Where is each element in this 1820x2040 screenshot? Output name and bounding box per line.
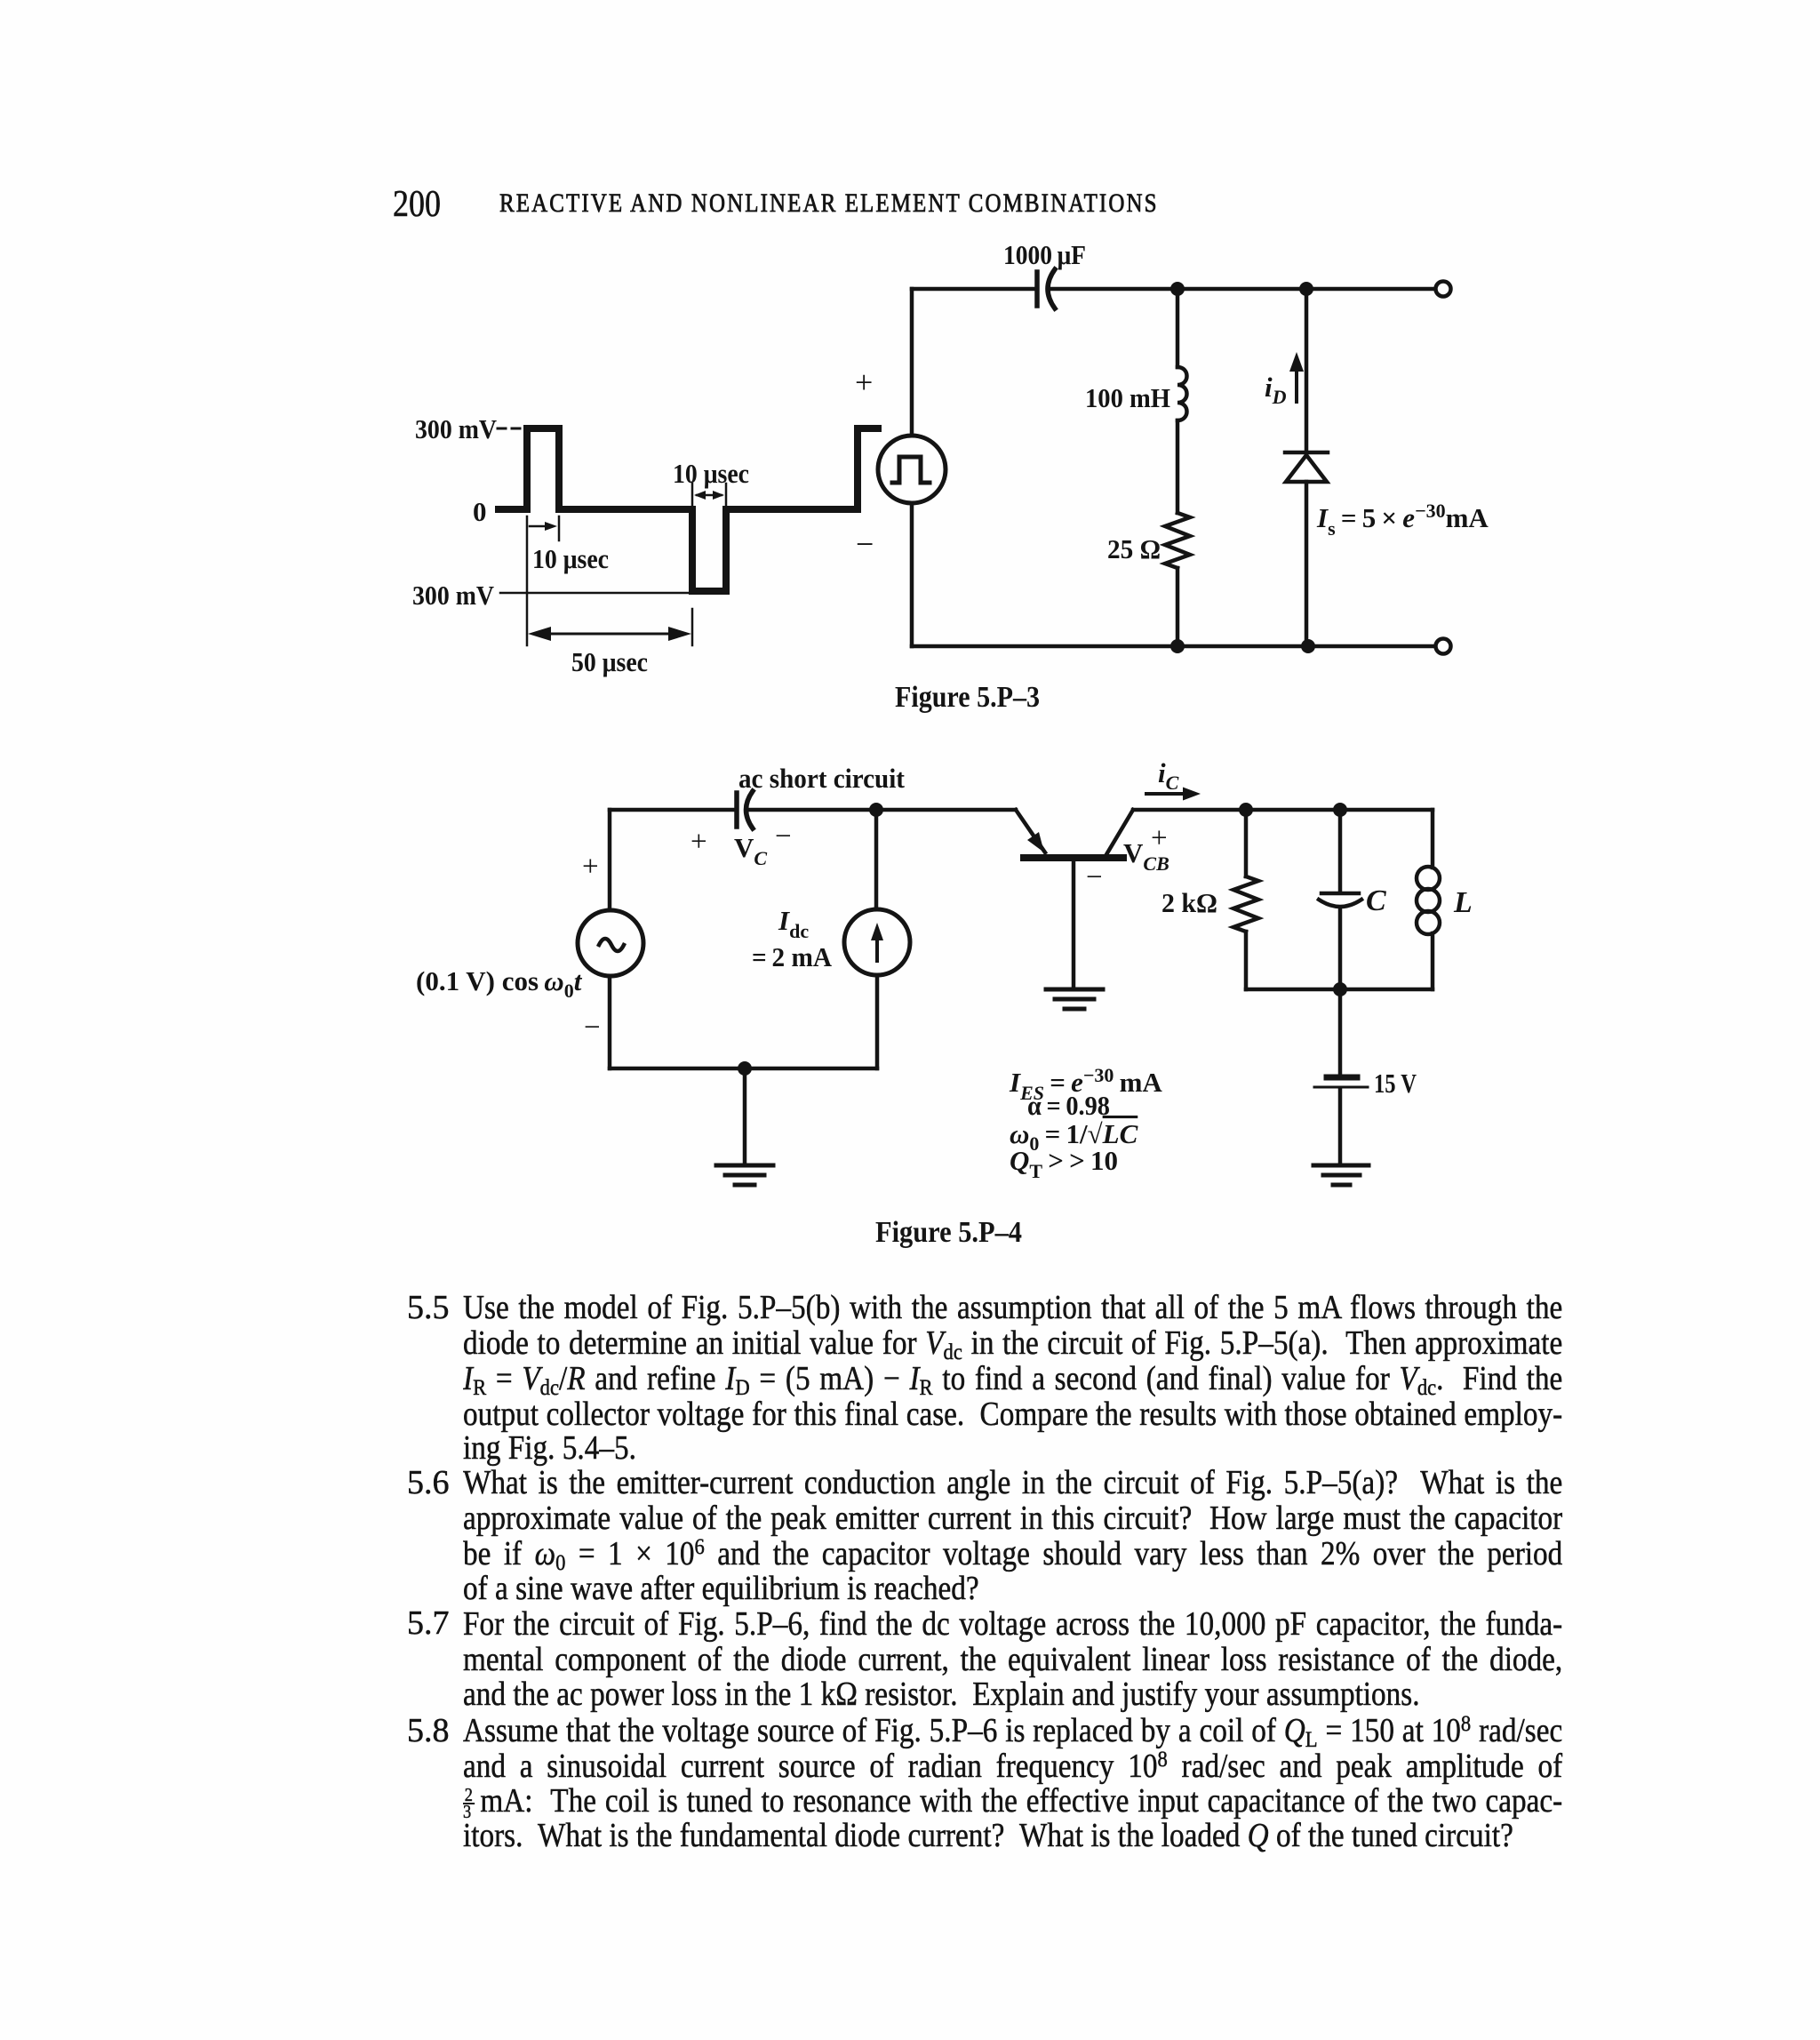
wire diode top [1305,289,1309,452]
svg-text:10 μsec: 10 μsec [532,543,609,574]
tick left long [526,516,529,645]
inductor L2 loops [1417,867,1440,934]
svg-text:50 μsec: 50 μsec [571,646,648,677]
problem numbers [407,1290,450,1325]
arrow iC [1146,788,1201,801]
page number 200 [393,183,441,226]
current source arrow [871,923,883,961]
ground stem left [743,1068,747,1165]
wire current source bottom [875,975,880,1068]
wire to battery [1338,989,1343,1076]
tick 50usec right [691,609,694,645]
wire top right [1050,287,1434,292]
svg-text:100 mH: 100 mH [1085,382,1170,413]
node dot C [1170,639,1185,653]
inductor L1 100mH [1177,367,1187,420]
svg-text:300 mV: 300 mV [412,580,495,611]
ground transistor [1046,989,1103,1009]
node dot F [738,1061,752,1076]
wire left vertical lower [910,503,914,646]
base stem [1072,858,1076,989]
svg-text:2 kΩ: 2 kΩ [1161,887,1217,918]
svg-text:25 Ω: 25 Ω [1107,533,1161,564]
transistor emitter arrowhead [1027,832,1044,852]
capacitor C2 top wire [1338,810,1343,892]
wire collector to tank [1133,808,1433,812]
ticks pulse2 [692,484,726,507]
terminal top [1436,282,1451,297]
current source I1 circle [844,909,910,975]
wire ac source bottom [608,976,612,1068]
tick pulse1 right [558,516,561,540]
capacitor C2 bottom wire [1338,908,1343,989]
svg-text:10 μsec: 10 μsec [673,458,749,489]
arrow iD [1289,352,1304,402]
inductor L2 top wire [1431,810,1435,868]
capacitor ac short [737,791,753,828]
node dot A [1170,282,1185,296]
terminal bottom [1436,639,1451,654]
transistor Q1 emitter slope [1016,810,1045,852]
svg-text:+: + [582,851,599,883]
battery B1 15V [1314,1077,1368,1087]
waveform trace [499,428,878,591]
svg-text:+: + [690,826,707,858]
wire inductor-resistor [1176,420,1180,513]
svg-text:Figure 5.P–4: Figure 5.P–4 [875,1216,1022,1249]
ac source tilde [599,939,624,951]
capacitor C1 1000uF [1037,269,1055,308]
svg-text:iC: iC [1158,757,1179,794]
svg-text:1000 μF: 1000 μF [1003,239,1086,270]
ground battery [1313,1165,1369,1185]
wire diode bottom [1305,482,1309,646]
capacitor C2 plates [1319,893,1361,907]
node dot H [1333,803,1347,817]
wire bottom fig2 left [610,1067,877,1071]
node dot E [869,803,883,817]
node dot D [1301,639,1315,653]
transistor base bar [1024,854,1123,861]
resistor R2 bottom wire [1244,932,1249,989]
svg-text:+: + [1151,822,1168,854]
ground left [716,1165,773,1185]
wire top mid fig2 [747,808,1016,812]
wire ac source top [608,810,612,910]
svg-text:= 2 mA: = 2 mA [752,941,833,972]
resistor R2 2k top wire [1244,810,1249,876]
svg-text:−: − [775,820,792,852]
svg-text:VC: VC [734,832,767,869]
svg-text:(0.1 V) cos ω0t: (0.1 V) cos ω0t [416,965,583,1002]
pulse source glyph [892,457,930,483]
arrow 10usec first [530,522,557,531]
ac source V1 circle [578,910,643,976]
problem 5.6 [463,1465,1562,1504]
wire inductor top [1176,289,1180,367]
pulse source U1 circle [878,436,946,503]
svg-text:C: C [1366,884,1386,917]
svg-text:−: − [856,526,874,562]
node dot G [1239,803,1253,817]
svg-text:300 mV: 300 mV [415,413,498,444]
svg-text:−: − [584,1012,601,1044]
waveform minus300 thin line [500,592,691,595]
wire current source top [874,810,879,909]
wire top left fig2 [610,808,735,812]
arrow 10usec second [694,491,724,500]
svg-text:−: − [1086,861,1103,893]
diode D1 [1285,452,1328,482]
svg-text:ac short circuit: ac short circuit [738,763,906,794]
node dot I [1333,982,1347,996]
svg-text:QT > > 10: QT > > 10 [1010,1145,1118,1182]
waveform 300mV dashed lead [498,428,526,430]
wire battery to ground [1338,1089,1343,1165]
wire resistor bottom [1176,568,1180,646]
wire left vertical upper [910,289,914,436]
transistor collector slope [1106,810,1133,856]
svg-text:iD: iD [1265,372,1287,408]
arrow 50usec [528,627,691,641]
wire top left [912,287,1035,292]
inductor L2 bottom wire [1431,933,1435,989]
svg-text:Is = 5 × e−30mA: Is = 5 × e−30mA [1316,500,1489,540]
node dot B [1299,282,1313,296]
svg-text:+: + [855,364,873,400]
resistor R1 25ohm [1165,513,1190,568]
svg-text:L: L [1453,886,1473,919]
svg-text:Figure 5.P–3: Figure 5.P–3 [895,681,1040,714]
running head [499,188,1159,219]
svg-text:α = 0.98: α = 0.98 [1027,1090,1110,1121]
problem 5.8 [463,1713,1562,1752]
svg-text:0: 0 [473,496,487,527]
svg-text:Idc: Idc [778,905,809,942]
wire tank bottom [1246,988,1433,992]
problem 5.7 [463,1606,1562,1645]
svg-text:15 V: 15 V [1374,1068,1417,1099]
wire bottom fig1 [912,644,1433,649]
resistor R2 2k zigzag [1233,876,1258,932]
problem 5.5 [463,1290,1562,1329]
